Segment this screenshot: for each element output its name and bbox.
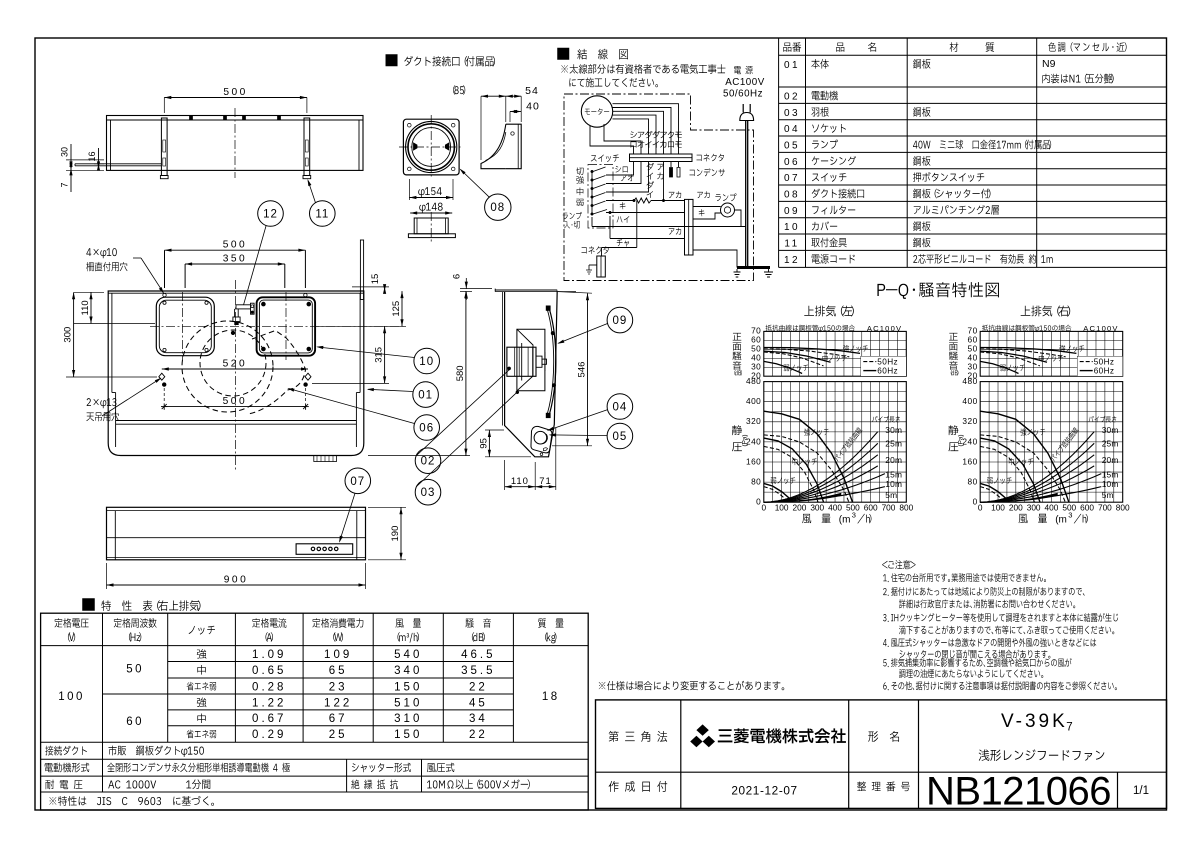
filter (item 09) <box>549 309 556 414</box>
callout 04 <box>607 394 633 420</box>
svg-text:520: 520 <box>223 359 248 370</box>
svg-text:160: 160 <box>962 456 977 466</box>
svg-text:315: 315 <box>374 347 385 363</box>
side view bottom screw <box>540 453 543 456</box>
svg-text:600: 600 <box>864 502 878 512</box>
svg-text:800: 800 <box>899 502 913 512</box>
svg-text:40: 40 <box>526 101 540 113</box>
power plug <box>743 104 750 113</box>
svg-text:0.67: 0.67 <box>252 713 286 725</box>
svg-text:0: 0 <box>761 502 766 512</box>
title block grid <box>596 700 1167 809</box>
P-Q chart right (upper exhaust right) <box>1021 306 1071 317</box>
parts table headers <box>783 42 801 52</box>
thick ground bar <box>737 266 770 269</box>
svg-text:25m: 25m <box>1102 439 1119 449</box>
svg-text:500: 500 <box>223 396 248 407</box>
lamp row wire (hai) <box>617 216 630 223</box>
bottom connector C <box>582 246 609 254</box>
svg-text:400: 400 <box>1045 502 1059 512</box>
svg-text:122: 122 <box>324 697 352 709</box>
svg-text:2021-12-07: 2021-12-07 <box>731 784 797 798</box>
svg-text:200: 200 <box>793 502 807 512</box>
fan center dot <box>231 331 235 335</box>
svg-text:N9: N9 <box>1042 58 1056 70</box>
leader from 06 to scroll dashed line <box>289 389 415 424</box>
plan view outer body <box>108 291 364 456</box>
svg-text:125: 125 <box>391 301 402 317</box>
svg-text:25m: 25m <box>885 439 902 449</box>
svg-text:500: 500 <box>223 240 248 251</box>
svg-text:67: 67 <box>329 713 348 725</box>
svg-text:7: 7 <box>60 182 70 187</box>
svg-text:0.65: 0.65 <box>252 665 286 677</box>
power cord double line <box>745 121 747 268</box>
svg-text:71: 71 <box>539 476 552 487</box>
svg-text:10m: 10m <box>885 479 902 489</box>
callout circle 08 <box>485 194 511 220</box>
svg-text:150: 150 <box>394 681 422 693</box>
svg-text:54: 54 <box>525 85 539 97</box>
dimension 546 <box>587 293 589 446</box>
top view centerline <box>234 108 236 178</box>
dimension 500 inside plan <box>164 406 305 408</box>
svg-text:100: 100 <box>775 502 789 512</box>
buttons visible at plan bottom <box>314 456 337 462</box>
svg-text:16: 16 <box>87 151 97 161</box>
svg-text:02: 02 <box>784 92 800 103</box>
wire labels below connector (daidai aka) <box>647 163 655 170</box>
switch contact arms <box>593 167 606 172</box>
connector bar A <box>630 154 693 162</box>
svg-text:25: 25 <box>329 729 348 741</box>
P-Q chart section title <box>877 282 999 299</box>
dimension 16 <box>94 163 104 165</box>
svg-text:1.09: 1.09 <box>252 649 286 661</box>
svg-text:11: 11 <box>784 239 799 250</box>
dimension 71 bottom <box>535 486 556 488</box>
svg-text:300: 300 <box>810 502 824 512</box>
leader from 08 to duct connector <box>461 170 490 198</box>
svg-text:08: 08 <box>784 190 800 201</box>
svg-text:04: 04 <box>784 124 800 135</box>
svg-text:480: 480 <box>962 376 977 386</box>
svg-text:60Hz: 60Hz <box>877 367 898 376</box>
switch common bus <box>591 171 593 214</box>
plan view front band <box>116 420 357 422</box>
duct connector side view <box>506 124 521 169</box>
svg-text:340: 340 <box>394 665 422 677</box>
svg-text:10: 10 <box>419 356 434 368</box>
svg-text:5m: 5m <box>1102 490 1114 500</box>
parts table (top right) <box>779 54 1167 56</box>
ground symbol left <box>734 269 741 277</box>
power cord exiting left <box>75 163 161 165</box>
svg-text:04: 04 <box>613 402 628 414</box>
power source label <box>734 66 753 74</box>
dimension phi154 <box>409 197 453 199</box>
duct connector circles <box>406 121 457 172</box>
right duct adapter opening <box>257 297 316 355</box>
callout 05 <box>607 423 633 449</box>
svg-text:22: 22 <box>469 729 488 741</box>
svg-text:(m: (m <box>1055 515 1067 526</box>
leader from 03 to casing <box>417 392 518 487</box>
power cord junction fitting <box>236 304 251 306</box>
callout circle 11 <box>310 201 336 227</box>
svg-text:35.5: 35.5 <box>461 665 495 677</box>
svg-text:320: 320 <box>962 416 977 426</box>
document number label <box>857 781 910 791</box>
callout 06 <box>414 415 440 441</box>
resistor row wire <box>606 200 634 202</box>
svg-text:01: 01 <box>784 60 800 71</box>
svg-text:50Hz: 50Hz <box>877 358 898 367</box>
fan volute dashed outline <box>182 321 273 412</box>
side view body outline <box>505 291 558 457</box>
callout 01 <box>413 382 439 408</box>
top view screw marks on top edge <box>190 116 193 120</box>
svg-text:540: 540 <box>394 649 422 661</box>
motor (item 02) <box>507 347 536 376</box>
callout 10 <box>414 348 440 374</box>
leader from 01 to body right edge <box>368 389 413 391</box>
svg-text:15m: 15m <box>1102 470 1119 480</box>
plan view top inner line <box>108 292 364 294</box>
svg-text:200: 200 <box>1009 502 1023 512</box>
dimension 7 <box>66 169 104 171</box>
creation date label <box>609 781 668 792</box>
model name label <box>868 731 899 742</box>
svg-text:05: 05 <box>784 141 800 152</box>
characteristics table grid <box>41 613 589 810</box>
svg-text:300: 300 <box>63 327 74 343</box>
svg-text:190: 190 <box>390 526 401 542</box>
svg-text:03: 03 <box>784 108 800 119</box>
aka wire below connector B <box>610 216 685 239</box>
dimension 580 right <box>465 291 467 456</box>
svg-text:3: 3 <box>1068 511 1072 520</box>
svg-text:900: 900 <box>224 575 249 586</box>
svg-text:0: 0 <box>978 502 983 512</box>
svg-text:60Hz: 60Hz <box>1094 367 1115 376</box>
svg-text:65: 65 <box>329 665 348 677</box>
svg-text:30m: 30m <box>885 425 902 435</box>
svg-text:10m: 10m <box>1102 479 1119 489</box>
svg-text:1/1: 1/1 <box>1133 785 1149 797</box>
characteristics table column headers <box>55 618 89 628</box>
dimension 54 <box>520 96 522 122</box>
svg-text:08: 08 <box>490 202 505 214</box>
svg-text:12: 12 <box>784 255 800 266</box>
dimension 40 <box>509 112 511 123</box>
fan inner dashed circle <box>200 330 266 396</box>
leader from 04 to lamp housing <box>548 410 608 431</box>
svg-text:11: 11 <box>315 209 329 221</box>
front view control panel (item 07) <box>296 544 353 555</box>
svg-text:18: 18 <box>542 691 560 703</box>
svg-text:0.28: 0.28 <box>252 681 286 693</box>
leader from 10 to duct adapter opening <box>318 347 415 358</box>
svg-text:V-39K: V-39K <box>1001 711 1068 732</box>
svg-text:510: 510 <box>394 697 422 709</box>
svg-text:400: 400 <box>962 396 977 406</box>
leader from 11 to right bracket <box>308 181 316 203</box>
svg-text:60: 60 <box>126 716 144 728</box>
svg-text:50Hz: 50Hz <box>1094 358 1115 367</box>
switch output wires <box>606 162 634 176</box>
right wall upper flange <box>360 240 363 300</box>
svg-text:320: 320 <box>746 416 761 426</box>
plan view right wall <box>359 293 361 392</box>
mounting bracket right (item 11) <box>304 118 310 176</box>
svg-text:(m: (m <box>839 515 851 526</box>
svg-text:0.29: 0.29 <box>252 729 286 741</box>
dimension 520 inside plan <box>162 368 308 370</box>
left rounded opening with grille holes <box>156 297 214 356</box>
svg-text:06: 06 <box>419 423 434 435</box>
mounting holes dots <box>162 383 166 387</box>
P-Q chart left (upper exhaust left) <box>804 306 854 317</box>
svg-text:45: 45 <box>469 697 488 709</box>
svg-text:310: 310 <box>394 713 422 725</box>
switch block <box>588 165 613 229</box>
svg-text:350: 350 <box>223 254 248 265</box>
svg-text:700: 700 <box>1098 502 1112 512</box>
svg-text:5m: 5m <box>885 490 897 500</box>
svg-text:6: 6 <box>452 274 463 279</box>
svg-text:50: 50 <box>126 664 144 676</box>
svg-text:30: 30 <box>60 147 70 157</box>
dimension 30 <box>66 159 104 161</box>
svg-text:400: 400 <box>828 502 842 512</box>
svg-text:3: 3 <box>852 511 856 520</box>
duct connector centerlines <box>430 115 432 179</box>
svg-text:06: 06 <box>784 157 800 168</box>
duct connector front square <box>403 119 459 175</box>
lamp compartment (items 04 05) <box>531 426 552 453</box>
duct spigot bottom view <box>414 218 448 234</box>
svg-text:800: 800 <box>1116 502 1130 512</box>
front view body <box>107 507 366 560</box>
notes body <box>883 573 1046 582</box>
svg-text:80: 80 <box>967 477 977 487</box>
characteristics table header label <box>83 599 95 611</box>
dimension 95 <box>488 430 490 457</box>
label 2xphi13 <box>87 398 117 408</box>
svg-text:02: 02 <box>421 456 436 468</box>
shutter hooks <box>414 143 418 150</box>
leader from 05 to lamp <box>550 434 607 437</box>
duct connector label <box>386 55 398 67</box>
svg-text:34: 34 <box>469 713 488 725</box>
fan shaft and hub <box>536 356 542 367</box>
company name <box>718 728 846 743</box>
svg-text:10: 10 <box>784 222 800 233</box>
svg-text:50/60Hz: 50/60Hz <box>723 89 763 100</box>
svg-text:600: 600 <box>1080 502 1094 512</box>
wires from connector B to right <box>693 250 737 268</box>
svg-text:110: 110 <box>80 300 91 315</box>
dimension 350 above plan <box>184 264 186 288</box>
svg-text:AC100V: AC100V <box>725 77 765 88</box>
svg-text:09: 09 <box>784 206 800 217</box>
capacitor <box>671 162 679 168</box>
svg-text:AC100V: AC100V <box>1083 324 1118 333</box>
characteristics table note <box>49 796 214 806</box>
label 4xphi10 <box>86 248 116 258</box>
svg-text:109: 109 <box>324 649 352 661</box>
wiring diagram note <box>561 64 725 74</box>
dimension 110 left <box>74 291 104 293</box>
svg-text:480: 480 <box>746 376 761 386</box>
svg-text:05: 05 <box>613 431 628 443</box>
third angle projection label <box>609 731 667 742</box>
wire colour labels above connector <box>630 131 637 138</box>
svg-text:(Pa): (Pa) <box>958 434 965 446</box>
svg-text:22: 22 <box>469 681 488 693</box>
leader from 02 to motor <box>416 369 510 456</box>
dimension 125 right <box>316 325 406 327</box>
fan casing <box>517 329 545 391</box>
top view body <box>107 116 364 171</box>
dimension (85) <box>480 96 482 160</box>
svg-text:95: 95 <box>478 438 489 449</box>
dimension 500 top <box>163 98 165 114</box>
svg-text:110: 110 <box>511 476 529 487</box>
svg-text:12: 12 <box>263 209 278 221</box>
leader from 12 to cord clamp <box>244 226 267 305</box>
lamp switch mark <box>544 448 548 451</box>
svg-text:07: 07 <box>784 173 800 184</box>
dimension 190 front <box>368 506 406 508</box>
svg-text:160: 160 <box>746 456 761 466</box>
callout 09 <box>607 307 633 333</box>
svg-text:20m: 20m <box>1102 455 1119 465</box>
svg-text:NB121066: NB121066 <box>926 770 1111 814</box>
dimension 15 right <box>352 286 389 288</box>
wires from motor bottom to connector pins 1-2 <box>590 126 634 154</box>
motor <box>581 96 612 127</box>
callout 03 <box>415 479 441 505</box>
svg-text:100: 100 <box>991 502 1005 512</box>
connector bar B vertical <box>685 199 694 255</box>
leader from 09 to filter <box>558 324 607 344</box>
top edge holes 4xphi10 <box>163 293 166 296</box>
svg-text:150: 150 <box>394 729 422 741</box>
dimension 900 front <box>106 563 108 589</box>
svg-text:30m: 30m <box>1102 425 1119 435</box>
callout 02 <box>415 448 441 474</box>
leader from 07 to control panel <box>340 493 356 541</box>
svg-text:(Pa): (Pa) <box>741 434 748 446</box>
svg-text:23: 23 <box>329 681 348 693</box>
svg-text:15m: 15m <box>885 470 902 480</box>
yellow wire label <box>620 202 626 209</box>
svg-text:03: 03 <box>421 487 436 499</box>
svg-text:01: 01 <box>418 390 433 402</box>
wiring boundary dash-dot box <box>564 94 754 281</box>
side view top plate <box>495 289 557 291</box>
callout circle 12 <box>258 201 284 227</box>
svg-text:09: 09 <box>613 315 628 327</box>
svg-text:15: 15 <box>370 274 381 285</box>
dimension 6 top <box>460 288 492 290</box>
dimension 500 above plan <box>164 250 166 288</box>
dimension 300 left <box>73 292 75 377</box>
earth ground symbol right <box>764 268 773 278</box>
svg-text:300: 300 <box>1027 502 1041 512</box>
plan view centerlines <box>150 325 405 327</box>
callout 07 <box>345 468 371 494</box>
notes header <box>882 560 915 569</box>
Mitsubishi Electric logo <box>696 724 708 735</box>
svg-text:07: 07 <box>350 476 365 488</box>
svg-text:100: 100 <box>58 691 85 703</box>
svg-text:80: 80 <box>751 477 761 487</box>
ceiling suspension holes 2xphi13 diamonds <box>159 373 165 380</box>
wires from motor to connector <box>613 104 679 154</box>
wiring diagram title <box>558 48 570 60</box>
svg-text:7: 7 <box>1066 722 1072 734</box>
svg-text:580: 580 <box>455 365 466 381</box>
characteristics table bottom rows <box>45 746 87 756</box>
dimension phi148 <box>410 212 452 214</box>
dimension 315 right <box>312 382 389 384</box>
svg-text:400: 400 <box>746 396 761 406</box>
red wire labels around connector B <box>669 191 681 198</box>
specification change note <box>599 681 785 690</box>
svg-text:20m: 20m <box>885 455 902 465</box>
ground at connector C <box>589 264 597 266</box>
svg-text:546: 546 <box>577 362 588 378</box>
svg-text:500: 500 <box>223 87 248 98</box>
lamp <box>715 193 736 201</box>
svg-text:46.5: 46.5 <box>461 649 495 661</box>
svg-text:1.22: 1.22 <box>252 697 286 709</box>
switch row labels <box>576 167 584 175</box>
dimension 110 bottom <box>504 460 506 490</box>
mounting bracket left (item 11) <box>161 118 167 176</box>
svg-text:700: 700 <box>882 502 896 512</box>
svg-text:AC100V: AC100V <box>867 324 902 333</box>
plan view left wall <box>111 293 113 392</box>
wire to bottom connector (cha) <box>636 201 638 248</box>
